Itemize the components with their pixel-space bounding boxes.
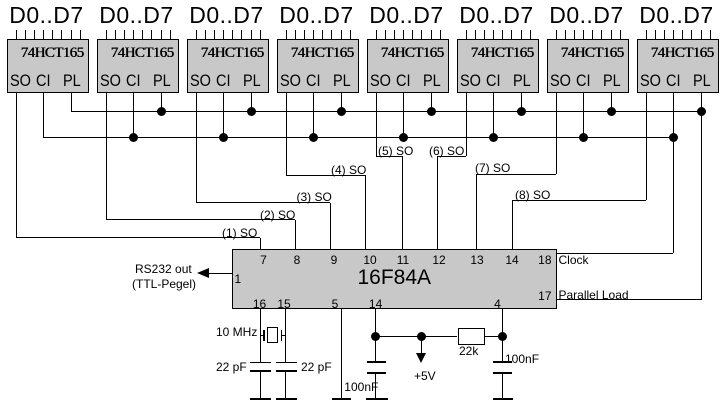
junction dot: U4 CI to clock bus — [309, 133, 318, 142]
wire: segment below C3 to ground — [375, 373, 376, 399]
arrow: RS232 output arrow (points left) — [197, 268, 209, 278]
wire: SO net 8 horizontal segment to PIC pin 14 — [512, 200, 646, 201]
wire: parallel-load net horizontal into PIC pin 17 — [557, 299, 701, 300]
wire: CI pin of U6 down to clock bus — [493, 93, 494, 138]
junction dot: U6 CI to clock bus — [489, 133, 498, 142]
wire: +5V rail from pin 14 to R1 — [376, 336, 458, 337]
resistor R1 22k — [458, 328, 486, 345]
wire: CI pin of U4 down to clock bus — [313, 93, 314, 138]
junction dot: U2 PL to PL bus — [157, 107, 166, 116]
junction dot: U2 CI to clock bus — [129, 133, 138, 142]
junction dot: U7 PL to PL bus — [607, 107, 616, 116]
label D0..D7 data inputs of U5 — [362, 4, 452, 27]
junction dot: U8 PL to PL bus — [697, 107, 706, 116]
net label (8) SO — [515, 188, 550, 202]
net label (3) SO — [297, 190, 332, 204]
pin name labels SO CI PL of U3 — [190, 73, 211, 90]
net label (4) SO — [331, 163, 366, 177]
net label (2) SO — [260, 208, 295, 222]
wire: PIC pin 5 (Vss) to ground — [341, 309, 342, 399]
wire: SO net 6 horizontal segment to PIC pin 12 — [437, 156, 466, 157]
junction dot: U7 CI to clock bus — [579, 133, 588, 142]
ground symbol under C4 — [493, 398, 514, 400]
pin name labels SO CI PL of U8 — [640, 73, 661, 90]
pin number 1 (RS232 out) of U9 — [235, 272, 242, 286]
wire: CI pin of U8 down to clock bus — [673, 93, 674, 138]
wire: PL (parallel load) bus horizontal — [71, 111, 701, 112]
junction dot: U6 PL to PL bus — [517, 107, 526, 116]
label D0..D7 data inputs of U6 — [452, 4, 542, 27]
net label Clock — [559, 253, 589, 267]
net label RS232 out (TTL-Pegel) — [135, 262, 192, 276]
wire: CI pin of U5 down to clock bus — [403, 93, 404, 138]
wire: SO output of U8 vertical segment — [646, 93, 647, 201]
net label Parallel Load — [559, 288, 629, 302]
ground symbol under C3 — [366, 398, 388, 400]
wire: SO output of U5 vertical segment — [376, 93, 377, 157]
wire: SO output of U6 vertical segment — [466, 93, 467, 157]
junction dot: U5 CI to clock bus — [399, 133, 408, 142]
pin number labels 7-14 on top edge of U9 — [249, 253, 279, 267]
wire: PIC pin 16 (OSC) down to C1 — [260, 309, 261, 363]
part value label 74HCT165 of U5 — [378, 45, 446, 62]
IC U7 74HCT165 (shift register 7) — [547, 39, 629, 93]
wire: PL pin of U5 down to parallel-load bus — [431, 93, 432, 112]
pin number 18 (clock) of U9 — [531, 253, 552, 267]
net label (1) SO — [222, 226, 257, 240]
wire: PIC pin 15 (OSC) down to C2 — [285, 309, 286, 363]
part value label 74HCT165 of U8 — [648, 45, 716, 62]
junction dot: U4 PL to PL bus — [337, 107, 346, 116]
wire: CI pin of U2 down to clock bus — [133, 93, 134, 138]
junction dot: U5 PL to PL bus — [427, 107, 436, 116]
junction dot: pin 14 to +5V rail — [371, 332, 380, 341]
IC U2 74HCT165 (shift register 2) — [97, 39, 179, 93]
value label 22 pF (right) — [301, 360, 332, 374]
wire: SO net 4 horizontal segment to PIC pin 10 — [286, 175, 365, 176]
ground symbol under pin 5 — [332, 398, 351, 400]
parallel data input pins D0-D7 of U2 (8 stubs) — [106, 30, 107, 40]
label D0..D7 data inputs of U8 — [632, 4, 722, 27]
wire: SO net 2 horizontal segment to PIC pin 8 — [106, 219, 295, 220]
label D0..D7 data inputs of U4 — [272, 4, 362, 27]
IC U8 74HCT165 (shift register 8) — [637, 39, 719, 93]
part value label 74HCT165 of U4 — [288, 45, 356, 62]
value label 22k — [459, 344, 478, 358]
wire: clock net horizontal into PIC pin 18 — [557, 253, 673, 254]
part value label 16F84A — [232, 266, 558, 290]
wire: PL pin of U2 down to parallel-load bus — [161, 93, 162, 112]
pin name labels SO CI PL of U5 — [370, 73, 391, 90]
wire: PIC pin 11 stub vertical — [402, 156, 403, 249]
capacitor C3 100nF — [367, 361, 386, 363]
pin name labels SO CI PL of U1 — [10, 73, 31, 90]
wire: clock net vertical from CI bus down to PIC pin 18 — [673, 138, 674, 254]
junction dot: pin 4 node — [498, 332, 507, 341]
label D0..D7 data inputs of U3 — [182, 4, 272, 27]
IC U4 74HCT165 (shift register 4) — [277, 39, 359, 93]
wire: PL pin of U6 down to parallel-load bus — [521, 93, 522, 112]
capacitor C4 100nF — [493, 361, 513, 363]
parallel data input pins D0-D7 of U6 (8 stubs) — [466, 30, 467, 40]
wire: PIC pin 7 stub vertical — [260, 238, 261, 249]
parallel data input pins D0-D7 of U4 (8 stubs) — [286, 30, 287, 40]
value label 100nF (C4) — [505, 352, 539, 366]
part value label 74HCT165 of U3 — [198, 45, 266, 62]
ground symbol under C2 — [276, 398, 297, 400]
label D0..D7 data inputs of U1 — [2, 4, 92, 27]
net label (5) SO — [378, 144, 413, 158]
wire: segment below C1 to ground — [260, 372, 261, 399]
parallel data input pins D0-D7 of U5 (8 stubs) — [376, 30, 377, 40]
wire: SO output of U7 vertical segment — [556, 93, 557, 175]
wire: R1 to pin 4 (MCLR) — [485, 336, 502, 337]
capacitor C1 22 pF — [250, 362, 271, 364]
pin name labels SO CI PL of U4 — [280, 73, 301, 90]
junction dot: U3 PL to PL bus — [247, 107, 256, 116]
power symbol +5V (arrow down) — [421, 337, 422, 353]
wire: PL pin of U1 down to parallel-load bus — [71, 93, 72, 112]
IC U9 PIC 16F84A microcontroller — [232, 249, 558, 309]
parallel data input pins D0-D7 of U3 (8 stubs) — [196, 30, 197, 40]
part value label 74HCT165 of U7 — [558, 45, 626, 62]
wire: PIC pin 14 stub vertical — [512, 200, 513, 249]
value label 10 MHz — [216, 325, 257, 339]
IC U6 74HCT165 (shift register 6) — [457, 39, 539, 93]
wire: PIC pin 14 (Vdd) down to +5V rail and C3 — [375, 309, 376, 363]
wire: PL pin of U7 down to parallel-load bus — [611, 93, 612, 112]
wire: PL pin of U8 down to parallel-load bus — [701, 93, 702, 112]
wire: CI pin of U7 down to clock bus — [583, 93, 584, 138]
part value label 74HCT165 of U2 — [108, 45, 176, 62]
power label +5V — [414, 369, 436, 383]
wire: CI pin of U3 down to clock bus — [223, 93, 224, 138]
pin name labels SO CI PL of U6 — [460, 73, 481, 90]
junction dot: U8 CI to clock bus — [669, 133, 678, 142]
capacitor C2 22 pF — [276, 362, 297, 364]
IC U3 74HCT165 (shift register 3) — [187, 39, 269, 93]
ground symbol under C1 — [250, 398, 271, 400]
wire: SO output of U2 vertical segment — [106, 93, 107, 220]
wire: SO net 5 horizontal segment to PIC pin 11 — [376, 156, 402, 157]
wire: parallel-load net vertical from PL bus down to PIC pin 17 — [701, 112, 702, 300]
junction dot: U3 CI to clock bus — [219, 133, 228, 142]
wire: segment below C2 to ground — [285, 372, 286, 399]
IC U1 74HCT165 (shift register 1) — [7, 39, 89, 93]
label D0..D7 data inputs of U2 — [92, 4, 182, 27]
wire: PIC pin 12 stub vertical — [437, 156, 438, 249]
wire: PIC pin 8 stub vertical — [295, 220, 296, 249]
IC U5 74HCT165 (shift register 5) — [367, 39, 449, 93]
wire: SO output of U1 vertical segment — [16, 93, 17, 238]
wire: PL pin of U3 down to parallel-load bus — [251, 93, 252, 112]
wire: PL pin of U4 down to parallel-load bus — [341, 93, 342, 112]
pin number 17 (parallel load) of U9 — [531, 289, 552, 303]
wire: SO output of U4 vertical segment — [286, 93, 287, 176]
part value label 74HCT165 of U1 — [18, 45, 86, 62]
value label 22 pF (left) — [216, 360, 247, 374]
wire: PIC pin 10 stub vertical — [365, 175, 366, 249]
wire: CI (clock) bus horizontal — [43, 137, 673, 138]
wire: segment below C4 to ground — [502, 373, 503, 399]
part value label 74HCT165 of U6 — [468, 45, 536, 62]
net label (6) SO — [429, 144, 464, 158]
wire: PIC pin 13 stub vertical — [476, 174, 477, 249]
wire: CI pin of U1 down to clock bus — [43, 93, 44, 138]
label D0..D7 data inputs of U7 — [542, 4, 632, 27]
wire: SO net 7 horizontal segment to PIC pin 13 — [477, 174, 557, 175]
net label (7) SO — [475, 161, 510, 175]
pin name labels SO CI PL of U7 — [550, 73, 571, 90]
wire: SO net 3 horizontal segment to PIC pin 9 — [196, 202, 330, 203]
crystal Q1 10 MHz — [261, 335, 265, 336]
pin name labels SO CI PL of U2 — [100, 73, 121, 90]
wire: PIC pin 9 stub vertical — [330, 203, 331, 249]
wire: PIC pin 4 (MCLR) down to C4 — [502, 309, 503, 363]
pin number labels 16 15 5 14 4 on bottom edge of U9 — [245, 297, 275, 311]
parallel data input pins D0-D7 of U7 (8 stubs) — [556, 30, 557, 40]
junction dot: +5V supply tap — [417, 332, 426, 341]
wire: PIC pin 1 to RS232 arrow — [209, 273, 232, 274]
value label 100nF (C3) — [344, 380, 378, 394]
parallel data input pins D0-D7 of U8 (8 stubs) — [646, 30, 647, 40]
parallel data input pins D0-D7 of U1 (8 stubs) — [16, 30, 17, 40]
wire: SO output of U3 vertical segment — [196, 93, 197, 203]
wire: SO net 1 horizontal segment to PIC pin 7 — [16, 237, 260, 238]
